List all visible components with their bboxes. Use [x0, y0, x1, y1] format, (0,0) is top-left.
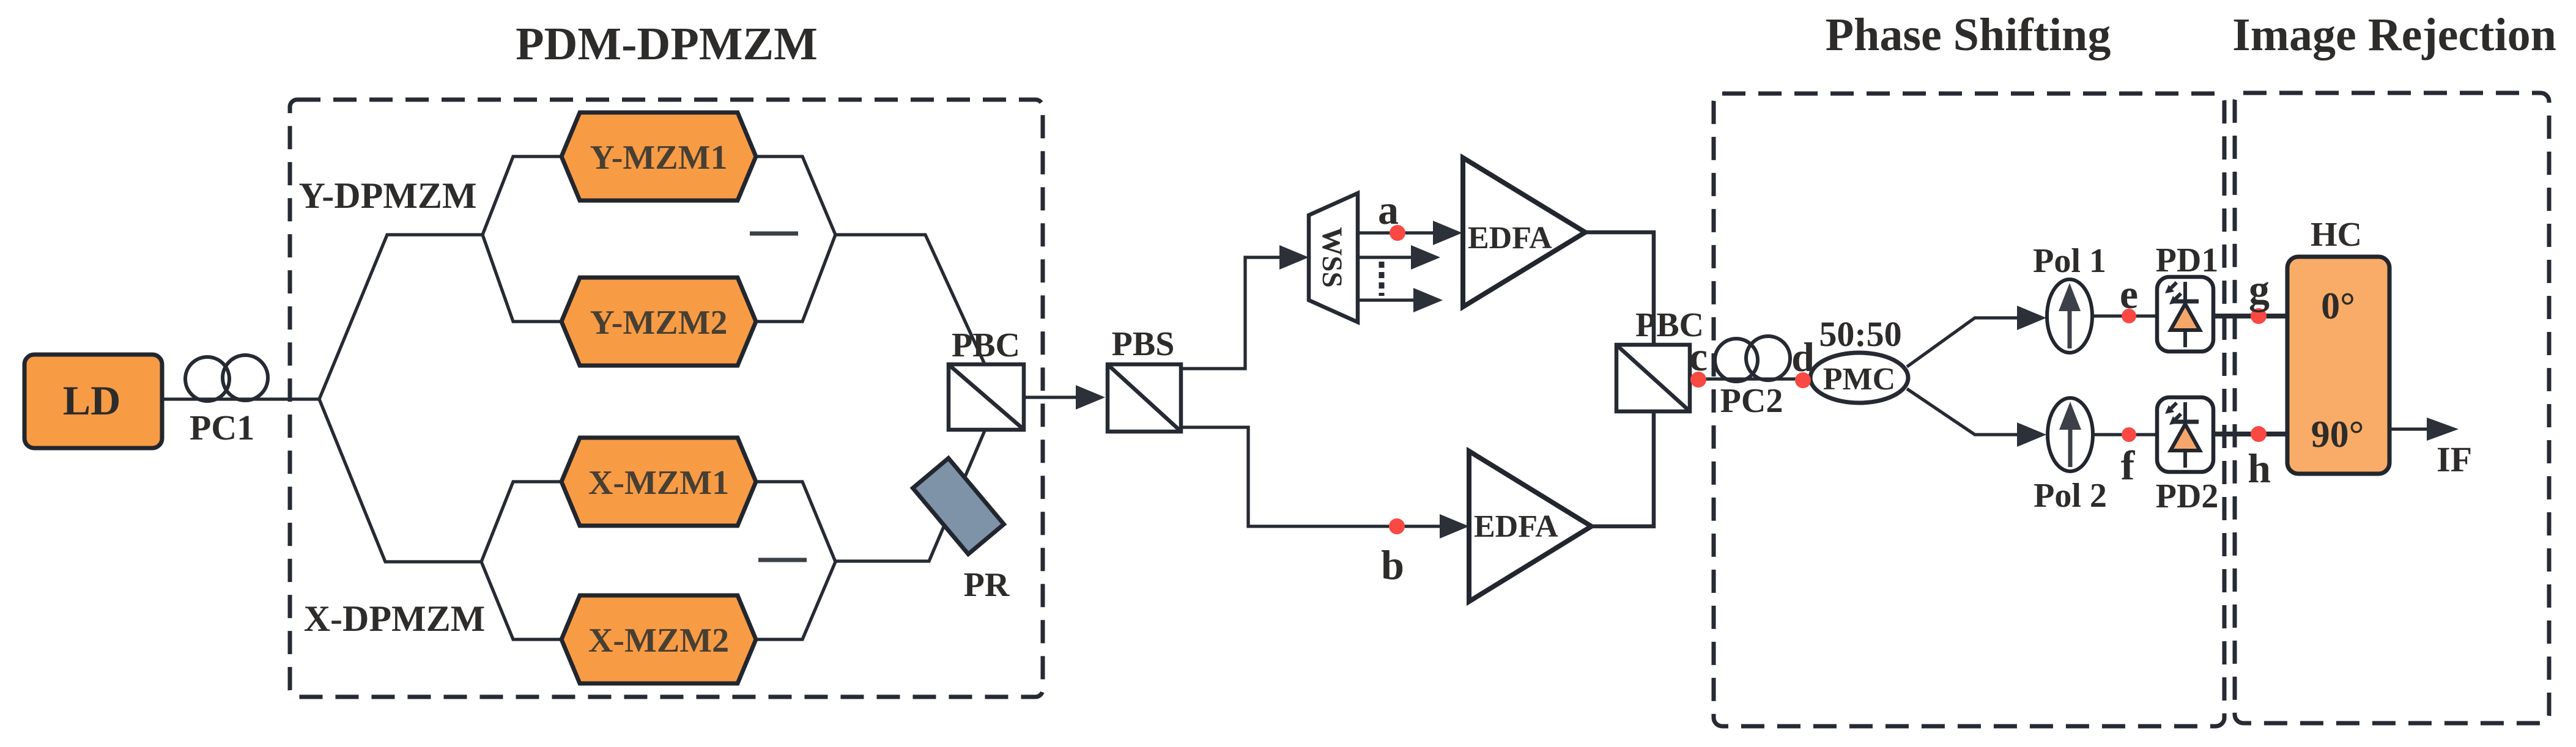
dashed box Phase Shifting	[1714, 94, 2224, 726]
LD box	[24, 355, 162, 448]
wire junction to Y-DPMZM	[319, 235, 483, 399]
svg-text:PC1: PC1	[190, 408, 254, 447]
wire Pol 2 to PD2	[2093, 433, 2157, 436]
node c	[1690, 372, 1706, 388]
polarization rotator PR	[913, 458, 1004, 554]
wire X upper arm out	[756, 482, 835, 562]
svg-text:HC: HC	[2311, 216, 2362, 254]
wire PBS bottom output to EDFA2	[1181, 427, 1441, 526]
amplifier EDFA1	[1463, 158, 1585, 307]
wire PMC to Pol 2 with arrow	[1907, 389, 2018, 435]
svg-text:EDFA: EDFA	[1468, 221, 1552, 256]
dashed box Image Rejection	[2235, 93, 2549, 723]
svg-text:d: d	[1791, 334, 1815, 380]
svg-text:Image Rejection: Image Rejection	[2232, 9, 2556, 61]
svg-text:f: f	[2121, 442, 2136, 488]
wire PBS top output to WSS	[1181, 257, 1281, 369]
svg-text:EDFA: EDFA	[1474, 509, 1558, 544]
svg-text:a: a	[1378, 186, 1399, 233]
svg-text:Y-DPMZM: Y-DPMZM	[298, 175, 476, 216]
svg-text:PC2: PC2	[1720, 382, 1783, 420]
node d	[1795, 372, 1811, 388]
svg-text:b: b	[1381, 542, 1404, 588]
wire Pol 1 to PD1	[2092, 314, 2157, 317]
svg-text:Y-MZM1: Y-MZM1	[590, 139, 727, 177]
svg-text:LD: LD	[63, 377, 120, 424]
svg-text:g: g	[2249, 266, 2270, 312]
polarization controller PC1 coils	[185, 357, 229, 401]
svg-text:c: c	[1689, 333, 1708, 380]
node e	[2122, 309, 2136, 323]
modulator X-MZM2	[561, 595, 756, 683]
ellipsis dots between WSS outputs	[1379, 262, 1385, 296]
svg-text:PR: PR	[964, 566, 1010, 604]
WSS output middle with arrow	[1358, 256, 1412, 259]
wire PD2 to HC	[2213, 432, 2289, 436]
wire EDFA2 to PBC2	[1591, 413, 1654, 526]
svg-text:h: h	[2248, 445, 2271, 491]
polarization maintaining coupler PMC	[1810, 353, 1908, 403]
svg-text:0°: 0°	[2321, 285, 2355, 327]
node f	[2122, 427, 2136, 442]
svg-text:PBS: PBS	[1112, 325, 1175, 363]
wire EDFA1 to PBC2	[1585, 232, 1654, 343]
svg-text:PBC: PBC	[952, 326, 1020, 364]
svg-text:PD2: PD2	[2156, 477, 2219, 515]
modulator Y-MZM2	[561, 278, 756, 366]
svg-text:90°: 90°	[2311, 414, 2364, 455]
bias dash Y	[750, 232, 798, 236]
svg-text:Phase Shifting: Phase Shifting	[1826, 9, 2111, 61]
polarizer Pol 1	[2047, 279, 2092, 353]
node b	[1389, 518, 1405, 534]
photodetector PD2	[2157, 397, 2213, 472]
svg-text:Y-MZM2: Y-MZM2	[590, 304, 727, 342]
photodetector PD1	[2157, 277, 2213, 351]
modulator Y-MZM1	[561, 112, 756, 201]
node h	[2251, 426, 2267, 442]
svg-text:50:50: 50:50	[1819, 314, 1901, 354]
wire Y-DPMZM output to PBC	[835, 235, 986, 367]
wavelength selective switch WSS	[1309, 193, 1358, 322]
WSS output lower with arrow	[1358, 298, 1415, 301]
svg-text:PD1: PD1	[2156, 241, 2219, 279]
hybrid coupler HC	[2287, 257, 2389, 474]
IF output arrow	[2389, 427, 2428, 430]
svg-text:PDM-DPMZM: PDM-DPMZM	[516, 18, 818, 70]
svg-text:e: e	[2120, 271, 2138, 317]
wire Y upper arm in	[483, 156, 561, 235]
wire X-DPMZM output through PR to PBC	[835, 428, 986, 561]
polarization beam combiner PBC	[949, 364, 1024, 430]
wire PBC2 to PMC	[1690, 377, 1812, 380]
amplifier EDFA2	[1469, 451, 1591, 602]
wire X lower arm in	[481, 562, 561, 639]
polarization beam splitter PBS	[1108, 364, 1181, 432]
svg-text:X-MZM1: X-MZM1	[588, 464, 729, 502]
WSS output a with arrow	[1358, 231, 1434, 234]
wire X upper arm in	[481, 482, 561, 562]
svg-text:X-MZM2: X-MZM2	[588, 622, 729, 660]
wire Y lower arm out	[756, 235, 835, 322]
svg-text:IF: IF	[2437, 440, 2472, 479]
wire PBC to PBS with arrow	[1024, 396, 1078, 399]
modulator X-MZM1	[561, 438, 756, 526]
svg-text:Pol 2: Pol 2	[2034, 477, 2107, 515]
dashed box PDM-DPMZM	[290, 100, 1043, 697]
wire junction to X-DPMZM	[319, 399, 481, 562]
wire X lower arm out	[756, 562, 835, 639]
wire PD1 to HC	[2213, 314, 2289, 318]
polarization beam combiner PBC2	[1616, 345, 1690, 411]
svg-text:PMC: PMC	[1823, 362, 1895, 397]
node a	[1390, 225, 1405, 241]
wire LD to PC1 junction	[162, 397, 319, 400]
polarizer Pol 2	[2048, 398, 2093, 471]
svg-text:Pol 1: Pol 1	[2033, 242, 2106, 280]
polarization controller PC2 coils	[1715, 339, 1758, 381]
wire Y lower arm in	[483, 235, 561, 322]
svg-text:WSS: WSS	[1316, 227, 1348, 287]
bias dash X	[758, 558, 807, 562]
svg-text:X-DPMZM: X-DPMZM	[304, 598, 486, 639]
wire Y upper arm out	[756, 156, 835, 235]
wire PMC to Pol 1 with arrow	[1907, 318, 2018, 367]
node g	[2251, 308, 2267, 324]
